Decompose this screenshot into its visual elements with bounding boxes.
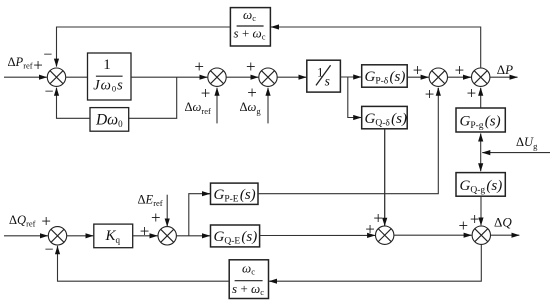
summing junction S9 (376, 226, 394, 244)
block G_Q-δ(s) (362, 106, 408, 128)
svg-text:+: + (151, 208, 161, 227)
wire S6 bottom down and left to bottom filter (270, 244, 482, 281)
wire Δω_ref input arrow (216, 88, 218, 124)
wire G_P-g up to S5 bottom (480, 88, 482, 108)
svg-text:s + ωc: s + ωc (232, 281, 264, 297)
block 1/(Jω0s) (88, 53, 132, 100)
block bottom filter ωc/(s+ωc) (229, 260, 268, 299)
block G_P-E(s) (211, 183, 259, 204)
svg-text:+: + (140, 222, 150, 241)
svg-text:+: + (246, 57, 256, 76)
wire ΔU_g junction up into G_P-g (480, 134, 482, 153)
svg-text:+: + (194, 57, 204, 76)
summing junction S1 (47, 68, 65, 86)
svg-text:ΔP: ΔP (497, 62, 513, 77)
wire G_P-E right, over to S4 bottom (258, 88, 438, 194)
wire S3 to 1/s block (277, 76, 306, 78)
block G_Q-E(s) (211, 225, 260, 247)
summing junction S8 (158, 227, 176, 245)
wire ΔU_g input from right (482, 152, 550, 154)
wire S9 to S6 (394, 234, 472, 236)
svg-text:1: 1 (103, 57, 111, 73)
wire top filter to S1 top (57, 27, 231, 67)
wire S5 to ΔP output (490, 76, 518, 78)
svg-text:s + ωc: s + ωc (234, 26, 266, 42)
wire: input ΔP_ref to S1 (4, 76, 47, 78)
wire S7 to Kq (67, 235, 94, 237)
summing junction S5 (472, 68, 490, 86)
svg-text:−: − (43, 46, 52, 63)
svg-text:+: + (33, 55, 43, 74)
wire G_Q-E right to S9 (260, 234, 376, 236)
block 1/s (307, 60, 341, 92)
wire integrator to S2 with branch node (131, 76, 207, 78)
block G_Q-g(s) (456, 173, 505, 197)
block Kq (94, 224, 133, 248)
wire ΔU_g junction down into G_Q-g (480, 153, 482, 172)
svg-text:ΔQ: ΔQ (494, 214, 512, 229)
svg-text:+: + (467, 83, 477, 102)
wire input ΔQ_ref to S7 (4, 235, 48, 237)
block top filter ωc/(s+ωc) (230, 7, 270, 46)
summing junction S7 (48, 227, 66, 245)
svg-text:+: + (413, 60, 423, 79)
block G_P-δ(s) (362, 65, 408, 87)
svg-text:−: − (44, 242, 53, 259)
wire branch down to Dω0 (129, 77, 177, 118)
svg-text:+: + (201, 84, 211, 103)
svg-text:Jω0s: Jω0s (93, 78, 124, 94)
svg-text:+: + (425, 84, 435, 103)
wire G_P-δ to S4 (407, 76, 428, 78)
block G_P-g(s) (456, 108, 505, 132)
wire Kq to S8 (133, 235, 158, 237)
wire S4 to S5 (448, 76, 472, 78)
summing junction S2 (208, 68, 226, 86)
svg-text:s: s (325, 74, 330, 89)
wire branch down to G_Q-δ (348, 77, 361, 118)
wire 1/s to G_P-δ with branch (340, 76, 361, 78)
block Dω0 (90, 108, 129, 132)
wire Δω_g input arrow (267, 88, 269, 124)
wire S1 to integrator block (66, 76, 88, 78)
svg-text:+: + (459, 216, 469, 235)
svg-text:+: + (373, 208, 383, 227)
summing junction S3 (259, 68, 277, 86)
wire G_Q-δ down to S9 (384, 129, 386, 226)
svg-text:+: + (455, 60, 465, 79)
wire S2 to S3 (226, 76, 258, 78)
wire S8 to G_Q-E with branch (176, 235, 210, 237)
svg-text:+: + (365, 220, 375, 239)
summing junction S6 (472, 226, 490, 244)
wire G_Q-g down to S6 top (480, 196, 482, 225)
svg-text:+: + (470, 209, 480, 228)
wire branch up to G_P-E (189, 194, 210, 236)
wire Dω0 to S1 bottom (57, 88, 91, 119)
wire top feedback: S5 top up and left to filter (272, 27, 481, 68)
wire bottom filter to S7 bottom (58, 246, 230, 281)
wire ΔE_ref input down to S8 (166, 195, 168, 227)
wire S6 to ΔQ output (491, 234, 520, 236)
summing junction S4 (429, 68, 447, 86)
svg-text:+: + (41, 212, 51, 231)
